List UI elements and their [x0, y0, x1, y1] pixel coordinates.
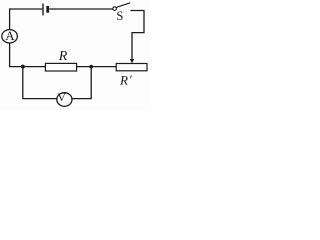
switch S pivot circle	[113, 7, 117, 11]
wire resistor to rheostat	[77, 66, 117, 68]
voltmeter V circle	[57, 93, 72, 107]
svg-text:S: S	[116, 9, 123, 23]
rheostat R' box	[116, 64, 147, 71]
resistor R box	[45, 63, 76, 71]
svg-text:V: V	[57, 90, 66, 104]
wire battery to switch	[49, 8, 113, 10]
wire switch right stub and right-side jog down	[130, 11, 144, 60]
voltmeter branch right wire	[72, 67, 91, 99]
ammeter A circle	[2, 30, 18, 43]
svg-text:R: R	[58, 49, 68, 64]
svg-text:A: A	[5, 28, 15, 43]
battery B1 short thick plate	[46, 6, 49, 13]
svg-text:R′: R′	[119, 72, 132, 87]
wire top to battery	[9, 8, 42, 10]
battery B1 long plate	[42, 4, 44, 16]
junction node left	[21, 65, 25, 69]
wire left vertical ammeter to mid rail	[9, 43, 11, 67]
wire top-left vertical	[9, 9, 11, 30]
wire mid rail to resistor	[9, 66, 45, 68]
switch S lever	[116, 3, 130, 8]
rheostat wiper arrowhead	[130, 59, 135, 63]
junction node right	[89, 65, 93, 69]
voltmeter branch left wire	[23, 67, 57, 99]
